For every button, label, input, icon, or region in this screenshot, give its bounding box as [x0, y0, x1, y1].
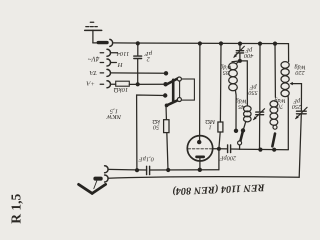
svg-text:50kΩ: 50kΩ — [152, 118, 160, 130]
svg-text:1104: 1104 — [116, 50, 130, 57]
svg-text:TA: TA — [89, 69, 97, 76]
svg-text:0,1µF: 0,1µF — [138, 155, 153, 162]
svg-text:220Wdg: 220Wdg — [294, 64, 305, 76]
svg-text:4V~: 4V~ — [88, 54, 100, 62]
svg-text:R 1,5: R 1,5 — [8, 193, 23, 223]
svg-text:200pF: 200pF — [220, 154, 237, 161]
svg-text:+A: +A — [85, 79, 95, 86]
svg-text:10kΩ: 10kΩ — [114, 86, 129, 93]
